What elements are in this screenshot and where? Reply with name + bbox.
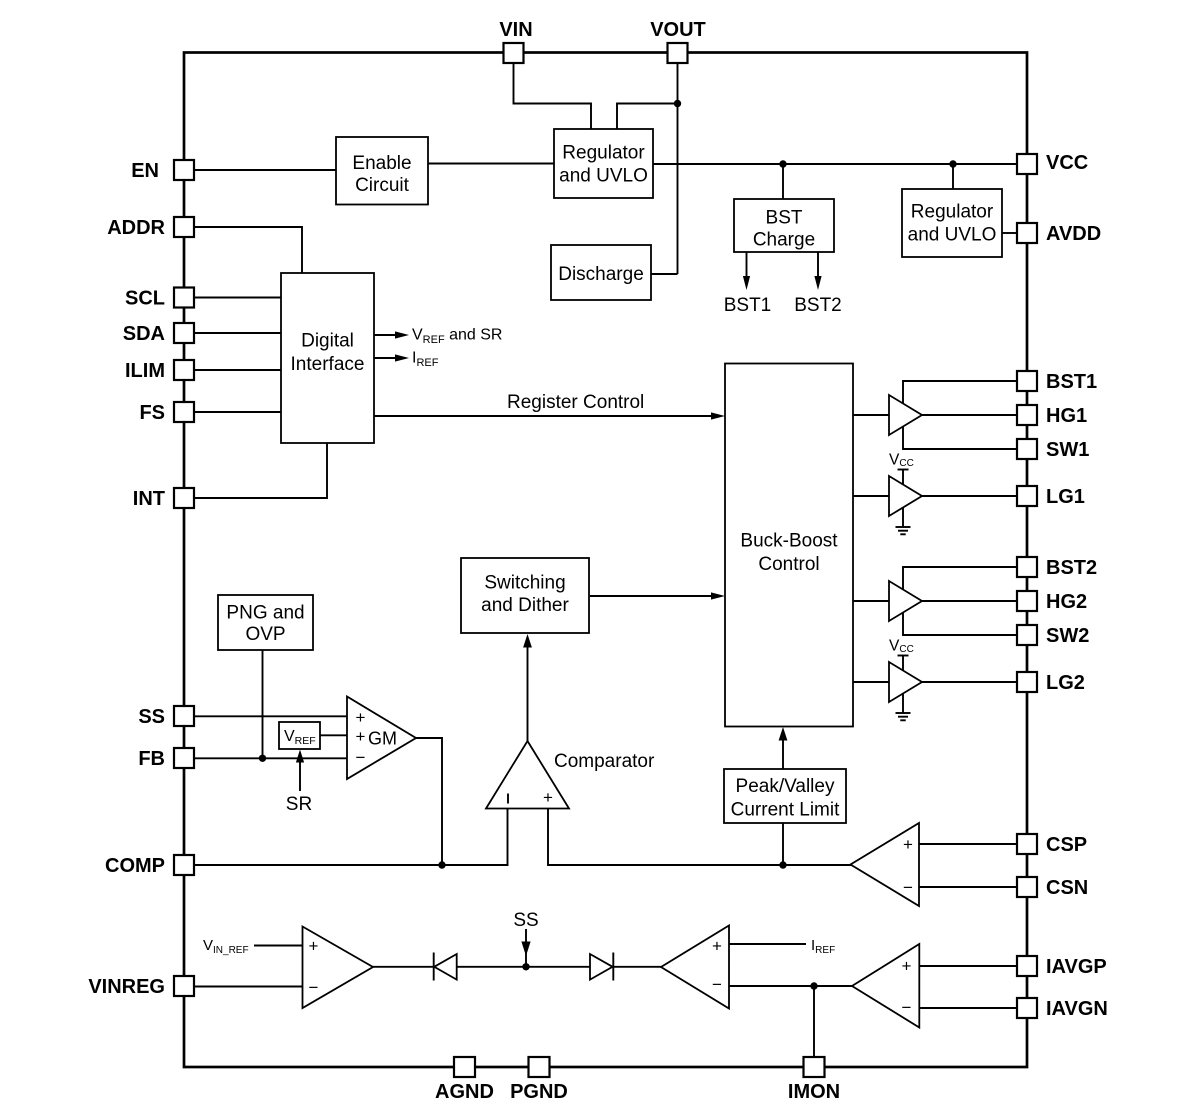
svg-text:LG1: LG1 bbox=[1046, 486, 1085, 508]
block VREF bbox=[279, 722, 320, 749]
ground LG1 driver bbox=[902, 508, 904, 528]
wire VIN drop bbox=[514, 63, 592, 129]
svg-text:and UVLO: and UVLO bbox=[908, 225, 997, 246]
pin COMP bbox=[174, 855, 194, 875]
svg-text:HG1: HG1 bbox=[1046, 405, 1087, 427]
svg-text:COMP: COMP bbox=[105, 855, 165, 877]
svg-text:Comparator: Comparator bbox=[554, 751, 655, 772]
driver LG2 bbox=[889, 662, 922, 702]
block BST Charge bbox=[734, 199, 834, 252]
svg-text:IREF: IREF bbox=[811, 937, 835, 956]
svg-text:+: + bbox=[356, 727, 366, 746]
pin SW2 bbox=[1017, 625, 1037, 645]
pin BST1 bbox=[1017, 371, 1037, 391]
svg-text:Enable: Enable bbox=[352, 153, 411, 174]
arrow Peak Valley to Buck-Boost bbox=[782, 740, 784, 769]
svg-text:Register Control: Register Control bbox=[507, 392, 644, 413]
svg-text:Charge: Charge bbox=[753, 230, 815, 251]
driver HG2 bbox=[889, 581, 922, 621]
wire COMP to comparator minus bbox=[194, 809, 508, 866]
wire IAVGN to IAVG amp bbox=[919, 1007, 1017, 1009]
wire right Regulator to AVDD bbox=[1002, 232, 1017, 234]
arrow Switching and Dither to Buck-Boost bbox=[590, 595, 713, 597]
arrow IREF out bbox=[374, 357, 396, 359]
pin AGND bbox=[454, 1057, 475, 1077]
svg-text:IAVGP: IAVGP bbox=[1046, 956, 1107, 978]
driver LG1 bbox=[889, 476, 922, 516]
pin CSN bbox=[1017, 877, 1037, 897]
amp CS bbox=[851, 823, 920, 906]
svg-text:IMON: IMON bbox=[788, 1081, 840, 1103]
wire D1 to D2 bbox=[457, 966, 590, 968]
block Regulator and UVLO top bbox=[554, 129, 653, 198]
pin INT bbox=[174, 488, 194, 508]
pin IAVGN bbox=[1017, 998, 1037, 1018]
block Peak Valley Current Limit bbox=[724, 769, 846, 823]
svg-text:−: − bbox=[903, 878, 913, 897]
pin ADDR bbox=[174, 217, 194, 237]
pin IAVGP bbox=[1017, 956, 1037, 976]
pin FB bbox=[174, 748, 194, 768]
ground LG2 driver bbox=[902, 694, 904, 714]
wire drop to BST Charge bbox=[782, 164, 784, 199]
pin VCC bbox=[1017, 154, 1037, 174]
wire VINREF to VINREG amp plus bbox=[254, 945, 303, 947]
wire VINREG pin to amp minus bbox=[194, 986, 303, 988]
svg-text:EN: EN bbox=[131, 160, 159, 182]
wire PNG OVP drop to FB bbox=[262, 650, 264, 758]
diode D1 bbox=[433, 953, 435, 981]
svg-text:FS: FS bbox=[139, 402, 165, 424]
svg-text:LG2: LG2 bbox=[1046, 672, 1085, 694]
svg-text:SS: SS bbox=[513, 910, 538, 931]
wire Buck-Boost to LG1 driver bbox=[853, 495, 889, 497]
svg-text:+: + bbox=[903, 835, 913, 854]
svg-text:BST1: BST1 bbox=[1046, 371, 1097, 393]
wire ILIM bbox=[194, 369, 281, 371]
svg-text:Peak/Valley: Peak/Valley bbox=[736, 776, 835, 797]
svg-text:Regulator: Regulator bbox=[911, 202, 994, 223]
svg-text:+: + bbox=[712, 937, 722, 956]
vcc stub LG1 driver bbox=[902, 470, 904, 486]
svg-text:Buck-Boost: Buck-Boost bbox=[740, 531, 838, 552]
junction VOUT branch bbox=[674, 100, 681, 107]
wire FS bbox=[194, 411, 281, 413]
wire HG2 driver to HG2 pin bbox=[922, 600, 1017, 602]
arrow BST Charge to BST1 bbox=[746, 252, 748, 277]
svg-text:Switching: Switching bbox=[484, 573, 565, 594]
svg-text:SR: SR bbox=[286, 794, 312, 815]
wire HG1 driver to HG1 pin bbox=[922, 414, 1017, 416]
junction FB node bbox=[259, 755, 266, 762]
junction IMON node bbox=[810, 982, 817, 989]
block PNG and OVP bbox=[218, 595, 313, 650]
wire SW2 bbox=[903, 613, 1017, 636]
svg-text:HG2: HG2 bbox=[1046, 591, 1087, 613]
junction GM output on COMP line bbox=[438, 861, 445, 868]
svg-text:VIN_REF: VIN_REF bbox=[203, 937, 249, 956]
wire IREF amp plus to IREF label bbox=[729, 943, 806, 945]
pin SS bbox=[174, 706, 194, 726]
arrow Register Control bbox=[374, 415, 713, 417]
svg-text:−: − bbox=[309, 978, 319, 997]
pin SW1 bbox=[1017, 439, 1037, 459]
pin SCL bbox=[174, 288, 194, 308]
vcc stub LG2 driver bbox=[902, 656, 904, 672]
svg-text:BST: BST bbox=[766, 208, 803, 229]
wire LG1 driver to LG1 pin bbox=[922, 495, 1017, 497]
wire VREF box to GM bbox=[320, 734, 347, 736]
wire SCL bbox=[194, 297, 281, 299]
svg-text:−: − bbox=[902, 998, 912, 1017]
svg-text:SCL: SCL bbox=[125, 288, 165, 310]
pin HG1 bbox=[1017, 405, 1037, 425]
svg-text:−: − bbox=[712, 975, 722, 994]
svg-text:Digital: Digital bbox=[301, 331, 354, 352]
svg-text:ILIM: ILIM bbox=[125, 360, 165, 382]
wire SW1 bbox=[903, 427, 1017, 450]
junction SS node bbox=[522, 963, 529, 970]
block Enable Circuit bbox=[336, 137, 428, 205]
op-amp GM bbox=[347, 697, 416, 780]
comparator bbox=[486, 741, 569, 809]
pin VINREG bbox=[174, 976, 194, 996]
svg-text:VOUT: VOUT bbox=[650, 19, 706, 41]
pin PGND bbox=[529, 1057, 550, 1077]
pin VIN bbox=[504, 43, 524, 63]
block Buck-Boost Control bbox=[725, 364, 853, 727]
svg-text:Discharge: Discharge bbox=[558, 264, 644, 285]
wire EN to Enable Circuit bbox=[194, 169, 336, 171]
wire BST2 bbox=[903, 567, 1017, 590]
wire Buck-Boost to LG2 driver bbox=[853, 681, 889, 683]
svg-text:Circuit: Circuit bbox=[355, 175, 410, 196]
amp VINREG bbox=[303, 927, 374, 1009]
pin IMON bbox=[804, 1057, 825, 1077]
wire ADDR to Digital Interface bbox=[194, 227, 302, 273]
junction VCC rail at Regulator right bbox=[949, 160, 956, 167]
block Digital Interface bbox=[281, 273, 374, 443]
pin CSP bbox=[1017, 834, 1037, 854]
block Switching and Dither bbox=[461, 558, 589, 633]
svg-text:OVP: OVP bbox=[245, 624, 285, 645]
diode D2 bbox=[590, 954, 613, 980]
pin AVDD bbox=[1017, 223, 1037, 243]
svg-text:IREF: IREF bbox=[412, 350, 439, 370]
svg-text:and UVLO: and UVLO bbox=[559, 166, 648, 187]
amp IREF bbox=[661, 926, 729, 1009]
wire D2 to IREF amp bbox=[613, 966, 661, 968]
svg-text:and Dither: and Dither bbox=[481, 595, 569, 616]
svg-text:VIN: VIN bbox=[499, 19, 532, 41]
pin HG2 bbox=[1017, 591, 1037, 611]
svg-text:BST2: BST2 bbox=[794, 295, 842, 316]
svg-text:SW2: SW2 bbox=[1046, 625, 1089, 647]
svg-text:SW1: SW1 bbox=[1046, 439, 1089, 461]
svg-text:VCC: VCC bbox=[889, 638, 914, 656]
pin EN bbox=[174, 160, 194, 180]
wire INT to Digital Interface bbox=[194, 443, 327, 498]
chip outer border bbox=[184, 53, 1027, 1068]
wire SDA bbox=[194, 332, 281, 334]
arrow SS down bbox=[525, 929, 527, 966]
svg-text:VINREG: VINREG bbox=[88, 976, 165, 998]
arrow VREF and SR out bbox=[374, 334, 396, 336]
svg-text:FB: FB bbox=[138, 748, 165, 770]
svg-text:SS: SS bbox=[138, 706, 165, 728]
pin LG2 bbox=[1017, 672, 1037, 692]
wire Peak Valley drop bbox=[782, 823, 784, 865]
svg-text:Current Limit: Current Limit bbox=[731, 800, 840, 821]
arrow SR into VREF box bbox=[299, 762, 301, 791]
svg-text:+: + bbox=[902, 957, 912, 976]
wire VINREG amp out to diode D1 bbox=[373, 966, 434, 968]
pin BST2 bbox=[1017, 557, 1037, 577]
svg-text:Control: Control bbox=[758, 554, 819, 575]
svg-text:AGND: AGND bbox=[435, 1081, 494, 1103]
svg-text:GM: GM bbox=[368, 729, 397, 749]
wire BST1 bbox=[903, 381, 1017, 404]
wire LG2 driver to LG2 pin bbox=[922, 681, 1017, 683]
wire Buck-Boost to HG1 driver bbox=[853, 414, 889, 416]
svg-text:VREF and SR: VREF and SR bbox=[412, 327, 502, 347]
svg-text:IAVGN: IAVGN bbox=[1046, 998, 1108, 1020]
block Regulator and UVLO right bbox=[902, 189, 1002, 257]
wire IMON drop bbox=[813, 986, 815, 1057]
svg-text:−: − bbox=[356, 748, 366, 767]
pin FS bbox=[174, 402, 194, 422]
junction peak valley on COMP line bbox=[779, 861, 786, 868]
junction VCC rail at BST Charge bbox=[779, 160, 786, 167]
arrow BST Charge to BST2 bbox=[817, 252, 819, 277]
wire comparator plus to CS amp bbox=[548, 809, 851, 866]
wire GM output to COMP node bbox=[416, 738, 442, 865]
svg-text:SDA: SDA bbox=[123, 323, 165, 345]
wire VOUT branch to Regulator bbox=[617, 104, 678, 130]
pin ILIM bbox=[174, 360, 194, 380]
svg-text:VCC: VCC bbox=[889, 452, 914, 470]
wire CSN to CS amp bbox=[919, 886, 1017, 888]
wire Buck-Boost to HG2 driver bbox=[853, 600, 889, 602]
svg-text:PNG and: PNG and bbox=[226, 603, 304, 624]
svg-text:+: + bbox=[356, 708, 366, 727]
wire SS to GM bbox=[194, 715, 347, 717]
wire CSP to CS amp bbox=[919, 843, 1017, 845]
svg-text:Regulator: Regulator bbox=[562, 143, 645, 164]
svg-text:+: + bbox=[543, 788, 553, 807]
wire VOUT drop to Discharge bbox=[677, 63, 679, 274]
pin VOUT bbox=[668, 43, 688, 63]
amp IAVG bbox=[852, 944, 919, 1028]
svg-text:AVDD: AVDD bbox=[1046, 223, 1101, 245]
pin LG1 bbox=[1017, 486, 1037, 506]
wire FB to GM bbox=[194, 757, 347, 759]
wire Enable Circuit to Regulator bbox=[428, 163, 554, 165]
wire Discharge to VOUT line bbox=[651, 273, 678, 275]
pin SDA bbox=[174, 323, 194, 343]
svg-text:Interface: Interface bbox=[291, 354, 365, 375]
wire VCC rail bbox=[653, 163, 1017, 165]
svg-text:INT: INT bbox=[133, 488, 165, 510]
arrow Comparator to Switching and Dither bbox=[527, 647, 529, 741]
svg-text:+: + bbox=[309, 937, 319, 956]
svg-text:CSP: CSP bbox=[1046, 834, 1087, 856]
block Discharge bbox=[551, 245, 651, 300]
svg-text:ADDR: ADDR bbox=[107, 217, 165, 239]
wire IAVGP to IAVG amp bbox=[919, 965, 1017, 967]
driver HG1 bbox=[889, 395, 922, 435]
svg-text:VCC: VCC bbox=[1046, 152, 1088, 174]
wire drop to right Regulator bbox=[952, 164, 954, 189]
svg-text:BST1: BST1 bbox=[724, 295, 772, 316]
wire IREF amp minus to IAVG amp bbox=[729, 985, 852, 987]
svg-text:BST2: BST2 bbox=[1046, 557, 1097, 579]
svg-text:CSN: CSN bbox=[1046, 877, 1088, 899]
svg-text:PGND: PGND bbox=[510, 1081, 568, 1103]
